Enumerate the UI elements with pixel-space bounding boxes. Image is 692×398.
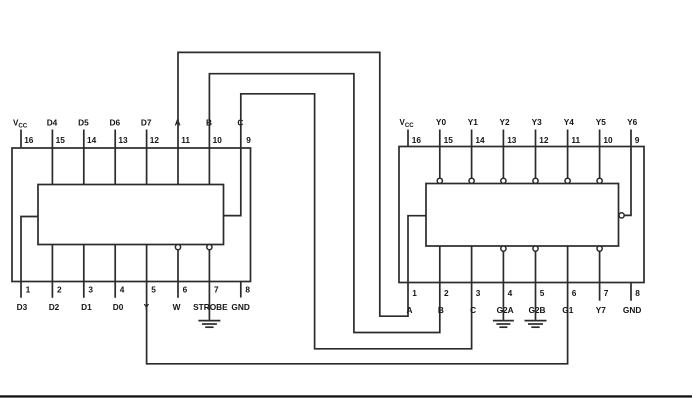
U2 pin 15 bubble (Y0) (437, 178, 442, 183)
U1 pin 3 wire (D1) (83, 245, 85, 298)
svg-text:G1: G1 (562, 305, 573, 315)
svg-text:10: 10 (603, 135, 613, 145)
svg-text:15: 15 (56, 135, 66, 145)
svg-text:G2A: G2A (497, 305, 514, 315)
svg-text:D6: D6 (109, 118, 120, 128)
ground symbol at U1 STROBE (198, 321, 220, 328)
svg-text:5: 5 (151, 284, 156, 294)
svg-text:STROBE: STROBE (193, 302, 228, 312)
svg-text:4: 4 (508, 288, 513, 298)
U1 pin 14 wire (D5) (83, 130, 85, 185)
U2 pin 4 wire G2A to ground (502, 251, 504, 320)
svg-text:11: 11 (571, 135, 580, 145)
U2 pin 7 bubble (Y7) (597, 246, 602, 251)
svg-text:GND: GND (231, 302, 249, 312)
bottom page rule (0, 395, 692, 397)
U2 pin 16 VCC stub (407, 130, 409, 147)
wire A : U1 pin 11 over the top to U2 pin 1, entering U2 body left side (178, 52, 426, 316)
U2 pin 10 bubble (Y5) (597, 178, 602, 183)
wire C : U1 pin 9 over the top to U2 pin 3 (224, 94, 472, 349)
IC U2 74138 decoder package outline (399, 147, 644, 283)
svg-text:12: 12 (539, 135, 549, 145)
U2 pin 13 wire (Y2) (502, 130, 504, 179)
U2 pin 8 GND stub (630, 283, 632, 301)
svg-text:9: 9 (635, 135, 640, 145)
U1 pin 1 wire D3 (routes up left side into body) (21, 217, 38, 298)
svg-text:D5: D5 (78, 118, 89, 128)
svg-text:6: 6 (183, 284, 188, 294)
svg-text:7: 7 (214, 284, 219, 294)
svg-text:3: 3 (476, 288, 481, 298)
wire B : U1 pin 10 over the top to U2 pin 2 (209, 74, 439, 333)
svg-text:2: 2 (57, 284, 62, 294)
svg-text:8: 8 (635, 288, 640, 298)
svg-text:D2: D2 (49, 302, 60, 312)
svg-text:D0: D0 (113, 302, 124, 312)
svg-text:14: 14 (87, 135, 97, 145)
svg-text:W: W (173, 302, 181, 312)
svg-text:Y3: Y3 (532, 117, 543, 127)
IC U1 74151 multiplexer package outline (12, 148, 251, 282)
svg-text:11: 11 (181, 135, 190, 145)
svg-text:1: 1 (26, 284, 31, 294)
wire Y : U1 pin 5 output to U2 pin 6 G1 (147, 245, 568, 364)
svg-text:A: A (407, 305, 413, 315)
U2 pin 5 bubble (G2B) (533, 246, 538, 251)
U2 pin 13 bubble (Y2) (501, 178, 506, 183)
svg-text:12: 12 (150, 135, 160, 145)
svg-text:D1: D1 (81, 302, 92, 312)
svg-text:16: 16 (412, 135, 422, 145)
svg-text:13: 13 (118, 135, 128, 145)
svg-text:9: 9 (246, 135, 251, 145)
svg-text:Y2: Y2 (500, 117, 511, 127)
svg-text:GND: GND (623, 305, 641, 315)
svg-text:15: 15 (444, 135, 454, 145)
U1 74151 body (38, 185, 224, 245)
U2 pin 11 wire (Y4) (567, 130, 569, 179)
U1 pin 8 GND stub (240, 282, 242, 298)
svg-text:Y6: Y6 (627, 117, 638, 127)
ground symbol at U2 G2B (525, 321, 547, 328)
svg-text:Y0: Y0 (436, 117, 447, 127)
svg-text:2: 2 (444, 288, 449, 298)
U2 pin 5 wire G2B to ground (535, 251, 537, 320)
U1 pin 6 bubble (W inverted output) (175, 245, 180, 250)
svg-text:Y5: Y5 (596, 117, 607, 127)
svg-text:Y1: Y1 (468, 117, 479, 127)
U1 pin 16 VCC stub (20, 130, 22, 149)
U1 pin 7 wire STROBE to ground (208, 250, 210, 320)
U2 pin 12 bubble (Y3) (533, 178, 538, 183)
U2 pin 7 wire Y7 (599, 251, 601, 301)
svg-text:C: C (470, 305, 476, 315)
U2 pin 14 wire (Y1) (471, 130, 473, 179)
svg-text:3: 3 (88, 284, 93, 294)
U2 pin 14 bubble (Y1) (469, 178, 474, 183)
U1 pin 13 wire (D6) (114, 130, 116, 185)
svg-text:5: 5 (540, 288, 545, 298)
svg-text:G2B: G2B (528, 305, 545, 315)
U1 pin 7 bubble (STROBE) (207, 245, 212, 250)
svg-text:Y7: Y7 (596, 305, 607, 315)
svg-text:1: 1 (412, 288, 417, 298)
U1 pin 2 wire (D2) (51, 245, 53, 298)
svg-text:8: 8 (245, 284, 250, 294)
svg-text:D3: D3 (17, 302, 28, 312)
U2 pin 9 wire Y6 (enters body right side) (624, 130, 631, 216)
U2 pin 12 wire (Y3) (535, 130, 537, 179)
svg-text:16: 16 (24, 135, 34, 145)
U2 pin 4 bubble (G2A) (501, 246, 506, 251)
U2 pin 9 bubble (Y6) (619, 213, 624, 218)
U2 74138 body (426, 184, 619, 247)
U1 pin 4 wire (D0) (114, 245, 116, 298)
svg-text:14: 14 (475, 135, 485, 145)
svg-text:D4: D4 (47, 118, 58, 128)
U1 pin 12 wire (D7) (146, 130, 148, 185)
svg-text:Y4: Y4 (564, 117, 575, 127)
U2 pin 10 wire (Y5) (599, 130, 601, 179)
svg-text:4: 4 (120, 284, 125, 294)
U2 pin 15 wire (Y0) (439, 130, 441, 179)
ground symbol at U2 G2A (493, 321, 514, 328)
svg-text:10: 10 (213, 135, 223, 145)
svg-text:6: 6 (572, 288, 577, 298)
svg-text:13: 13 (507, 135, 517, 145)
U1 pin 15 wire (D4) (51, 130, 53, 185)
svg-text:7: 7 (604, 288, 609, 298)
svg-text:D7: D7 (141, 118, 152, 128)
U2 pin 11 bubble (Y4) (565, 178, 570, 183)
U1 pin 6 wire W (177, 250, 179, 298)
svg-text:B: B (438, 305, 444, 315)
